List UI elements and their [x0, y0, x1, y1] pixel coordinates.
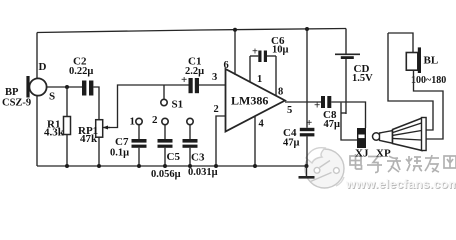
node dot R1 bottom	[65, 164, 69, 168]
battery CD 1.5V	[335, 29, 373, 115]
node dot pin2 ground	[214, 164, 218, 168]
svg-text:+: +	[306, 117, 312, 129]
wire RP1 wiper up and right to C1	[108, 85, 189, 128]
svg-text:8: 8	[278, 87, 283, 98]
svg-text:6: 6	[224, 60, 229, 71]
svg-text:S1: S1	[172, 99, 184, 111]
capacitor C8 47u	[314, 96, 340, 130]
svg-text:2: 2	[152, 114, 158, 126]
node dot C4 rail top	[305, 27, 309, 31]
svg-text:1: 1	[130, 116, 136, 128]
pin 4 wire to ground	[254, 116, 256, 166]
svg-text:1.5V: 1.5V	[352, 73, 373, 84]
pin 2 wire to ground	[216, 116, 226, 166]
node dot rail end	[305, 164, 309, 168]
svg-text:D: D	[39, 61, 47, 73]
svg-text:0.1μ: 0.1μ	[110, 148, 129, 159]
op-amp U1 LM386	[226, 69, 286, 132]
svg-text:+: +	[252, 47, 258, 58]
svg-text:C7: C7	[115, 136, 129, 148]
pin 5 output wire	[285, 101, 321, 103]
svg-text:S: S	[49, 91, 55, 103]
svg-text:47k: 47k	[80, 133, 98, 145]
node dot RP1 bottom	[97, 164, 101, 168]
node dot R1 top	[65, 85, 69, 89]
pin 6 wire to rail	[234, 30, 236, 75]
wire XP tip loop	[388, 33, 433, 130]
wire C2 to RP1 top	[93, 87, 99, 120]
capacitor C2 0.22u	[69, 56, 93, 96]
svg-text:3: 3	[212, 72, 217, 83]
watermark logo ball	[305, 148, 344, 188]
capacitor C6 10u	[250, 35, 289, 62]
svg-text:47μ: 47μ	[324, 119, 341, 130]
earphone BL	[388, 33, 452, 86]
svg-text:LM386: LM386	[231, 94, 268, 108]
svg-text:+: +	[314, 100, 320, 112]
svg-text:47μ: 47μ	[283, 138, 300, 149]
svg-text:10μ: 10μ	[272, 45, 289, 56]
pin 1 wire up	[249, 56, 251, 82]
wire BL bottom to XP sleeve	[414, 70, 444, 139]
wire top rail	[37, 29, 346, 33]
switch S1 contact 2	[152, 114, 168, 139]
node dot C3 bottom	[188, 164, 192, 168]
jack XJ	[355, 128, 369, 160]
svg-text:CSZ-9: CSZ-9	[2, 98, 31, 109]
wire battery to XJ sleeve	[341, 112, 346, 114]
wire C1 to pin3	[199, 84, 226, 86]
capacitor C4 47u	[283, 117, 314, 166]
potentiometer RP1 47k	[78, 120, 110, 166]
svg-text:0.22μ: 0.22μ	[69, 66, 93, 77]
svg-text:XJ: XJ	[355, 148, 369, 160]
switch S1 pole	[161, 85, 183, 111]
node dot pin6 rail	[233, 28, 237, 32]
svg-text:BP: BP	[5, 87, 19, 98]
capacitor C7 0.1u	[110, 136, 147, 166]
svg-text:100~180: 100~180	[411, 75, 446, 86]
svg-text:5: 5	[287, 105, 292, 116]
svg-text:C5: C5	[167, 151, 181, 163]
capacitor C3 0.031u	[183, 139, 218, 178]
wire V+ down to C4	[306, 29, 308, 128]
resistor R1 4.3k	[44, 87, 71, 166]
wire mic bottom to bottom rail	[36, 96, 38, 167]
microphone BP CSZ-9	[2, 61, 55, 109]
svg-text:2: 2	[214, 104, 219, 115]
svg-text:4: 4	[259, 119, 265, 130]
svg-text:BL: BL	[424, 55, 439, 67]
svg-text:1: 1	[257, 74, 262, 85]
wire bottom rail	[37, 165, 307, 167]
pin 8 wire up	[275, 56, 277, 96]
watermark chinese text 电子发烧友	[350, 154, 456, 173]
node dot pin4 ground	[253, 164, 257, 168]
svg-text:0.056μ: 0.056μ	[151, 169, 181, 180]
plug XP	[373, 118, 427, 160]
wire left frame (rail to mic D)	[36, 33, 38, 79]
node dot C7 bottom	[137, 164, 141, 168]
node dot C5 bottom	[163, 164, 167, 168]
svg-text:2.2μ: 2.2μ	[185, 66, 204, 77]
capacitor C5 0.056u	[151, 139, 181, 180]
svg-text:0.031μ: 0.031μ	[188, 167, 218, 178]
svg-text:C3: C3	[191, 152, 205, 164]
wire C8 to XJ	[331, 102, 365, 128]
ground	[299, 166, 315, 177]
svg-text:XP: XP	[376, 148, 391, 160]
switch S1 contact 1	[130, 116, 143, 140]
svg-text:www.elecfans.com: www.elecfans.com	[345, 177, 456, 191]
svg-text:4.3k: 4.3k	[44, 127, 65, 139]
switch S1 contact 3	[187, 118, 193, 139]
capacitor C1 2.2u	[181, 56, 204, 94]
wire mic S to C2	[47, 86, 82, 88]
